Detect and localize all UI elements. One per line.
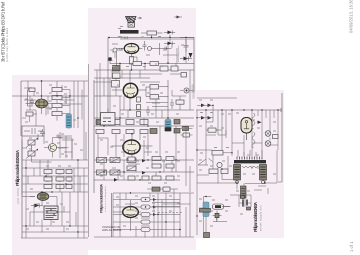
main HT wire lower pair xyxy=(120,38,194,40)
diode D6 xyxy=(142,171,146,174)
screen feed wire xyxy=(160,43,168,55)
cap C33 xyxy=(140,130,148,134)
component grid r4 xyxy=(44,177,52,181)
bus y172 xyxy=(94,171,194,173)
rectifier diode D12 xyxy=(208,104,212,108)
diode mark row2 xyxy=(153,206,156,209)
resistor R33 xyxy=(141,213,150,217)
small cap left of tube xyxy=(30,98,34,106)
loudspeaker LS1 xyxy=(126,17,137,28)
V5 pins xyxy=(113,200,141,231)
tiny value labels center bottom xyxy=(116,196,180,226)
bus y74 partial xyxy=(122,73,186,75)
resistor R20 xyxy=(166,176,174,180)
dark block C28d xyxy=(174,129,180,134)
junction dots right upper xyxy=(197,105,278,118)
bus y126 xyxy=(94,125,194,127)
mains connector component xyxy=(213,211,222,221)
anode load R14 xyxy=(137,97,141,102)
mains transformer T1 core xyxy=(234,160,266,163)
module contents xyxy=(46,209,57,218)
wires coil column xyxy=(57,81,70,121)
svg-text:schema voedingsdeel: schema voedingsdeel xyxy=(105,186,107,213)
dial lamp LP2 xyxy=(265,141,271,147)
aerial connector cluster xyxy=(108,57,113,64)
tiny diode top right xyxy=(177,16,181,19)
bus y104 partial xyxy=(60,103,82,105)
grid cluster box G2 xyxy=(163,187,170,191)
diode D4 outside frame xyxy=(184,57,189,61)
main HT wire xyxy=(108,37,194,39)
cap C22 xyxy=(165,47,172,51)
V2 pin wires xyxy=(112,70,146,110)
filter choke C42 xyxy=(260,165,267,181)
bus y176 xyxy=(22,175,88,177)
diode wire xyxy=(197,104,213,106)
scanned page strip left xyxy=(12,75,88,255)
bus y96 xyxy=(94,95,122,97)
tuning gang C1 xyxy=(26,138,38,148)
output transformer T2 black bar xyxy=(120,30,139,34)
resistor R21 xyxy=(147,31,157,35)
tuning gang C2 xyxy=(26,149,38,159)
wires tuning area xyxy=(22,138,69,197)
gang link dashed xyxy=(31,146,33,151)
filter internal bar xyxy=(200,209,211,213)
svg-text:power supply unit: power supply unit xyxy=(259,205,263,231)
trimmer cap symbol xyxy=(40,129,45,137)
tiny labels left upper xyxy=(25,85,76,122)
diode bar xyxy=(31,203,43,207)
resistor R16 xyxy=(137,112,141,117)
bus y232 left xyxy=(22,231,88,233)
resistor R12 xyxy=(133,62,142,66)
transistor TS1 xyxy=(49,144,57,152)
verticals right xyxy=(70,81,84,160)
right frame tick xyxy=(278,181,282,183)
wires right of V2 xyxy=(146,80,169,120)
small box x112 y80 xyxy=(112,81,120,88)
resistor R15 xyxy=(137,105,141,110)
diode below tube xyxy=(35,204,40,208)
wire riser R21 xyxy=(141,33,163,38)
right frame edge xyxy=(281,93,283,182)
wire mesh upper center xyxy=(112,43,177,78)
tiny labels right mid xyxy=(199,148,276,175)
box right mid B2 xyxy=(176,100,184,104)
osc coil box L3 xyxy=(52,104,62,108)
junction dots right bottom xyxy=(197,197,243,217)
grid cluster wires xyxy=(147,189,178,193)
speaker terminal arrow xyxy=(118,17,142,29)
bus y160 left xyxy=(22,159,88,161)
bottom verticals xyxy=(113,193,190,237)
component grid r1 xyxy=(44,170,52,174)
pot P3 xyxy=(110,158,120,163)
osc coil box L2 xyxy=(52,96,62,100)
box mid right strip xyxy=(208,128,216,132)
dark row box K4 xyxy=(140,120,148,125)
fuse inner band xyxy=(215,205,221,208)
dashed AVC line xyxy=(158,212,182,214)
tiny value labels center top xyxy=(98,37,184,129)
osc coil box L4 xyxy=(52,112,62,116)
wires bottom section xyxy=(113,193,194,230)
right strip verticals xyxy=(197,105,278,235)
wire mesh left upper xyxy=(24,81,82,126)
junction dots mid xyxy=(104,134,176,180)
junction risers xyxy=(100,39,186,70)
box row b1 xyxy=(209,169,218,174)
cap C34b slashed xyxy=(127,166,136,171)
S1 bands xyxy=(67,117,71,126)
bus y82 partial xyxy=(94,81,160,83)
small box above tube xyxy=(29,88,35,92)
S7 core bands xyxy=(166,122,170,127)
junction dots left upper xyxy=(42,81,79,118)
tiny labels left mid xyxy=(29,138,71,189)
page join edge line xyxy=(88,64,90,237)
wire mesh left mid xyxy=(22,134,80,192)
T1 feed stubs xyxy=(238,150,262,157)
dial lamp LP1 xyxy=(265,131,271,137)
capacitor symbol pair C26 xyxy=(146,106,150,116)
osc coil box L1 xyxy=(52,88,62,92)
IF transformer teal S1 xyxy=(66,114,72,128)
heater coil wavy xyxy=(252,113,255,148)
V1 pins xyxy=(26,81,52,114)
bus y226 left xyxy=(22,225,88,227)
T1 secondary bumps xyxy=(242,166,258,168)
output pentode V5 xyxy=(123,207,139,218)
wires lower right strip xyxy=(197,174,265,207)
small cap rows y129-134 xyxy=(96,130,104,134)
component grid r7 xyxy=(44,185,52,189)
component grid r5 xyxy=(56,177,64,181)
lamp circuit wires xyxy=(239,195,251,207)
pot circle xyxy=(217,162,222,167)
wire mesh left bottom xyxy=(22,197,76,233)
IF transformer teal S7 xyxy=(165,120,171,132)
bus y102 partial xyxy=(146,103,168,107)
inner frame stub xyxy=(28,90,34,106)
vertical x120 xyxy=(119,96,121,126)
end tick xyxy=(280,108,282,112)
svg-text:1B: 1B xyxy=(119,48,123,52)
coupling cap C21 xyxy=(143,41,147,51)
box C24 xyxy=(150,85,159,90)
svg-text:220V AC MAINS: 220V AC MAINS xyxy=(102,228,121,232)
svg-text:Philips models B3X63A: Philips models B3X63A xyxy=(99,184,103,213)
scanned page strip center xyxy=(88,8,196,250)
svg-text:B3X63A: B3X63A xyxy=(193,90,196,99)
cap stack C37 xyxy=(128,157,135,161)
grid circle left of V4 xyxy=(113,48,117,52)
electrolytic arrow xyxy=(189,53,193,58)
aerial sub box xyxy=(22,126,44,136)
wire mesh right upper xyxy=(197,98,278,145)
small box lower left of tube xyxy=(26,112,33,116)
dark row box K1 xyxy=(96,120,104,125)
svg-text:Philips models B3X63A: Philips models B3X63A xyxy=(253,202,258,232)
diode D3 xyxy=(114,178,118,182)
resistor R32 xyxy=(141,205,150,209)
junction dots left mid xyxy=(26,160,78,192)
left frame edge xyxy=(93,80,95,193)
long bus y96 xyxy=(12,95,88,97)
bottom frame xyxy=(94,236,194,238)
component grid r3 xyxy=(66,170,72,174)
dark row box K2 xyxy=(112,120,120,125)
bus y160 xyxy=(94,159,194,161)
choke terminal circle 2 xyxy=(262,181,265,184)
lower-left corner center strip xyxy=(111,193,113,237)
bottom component X1 xyxy=(204,233,210,238)
bus y78 xyxy=(94,77,150,79)
component grid r9 xyxy=(66,185,72,189)
stubs near V4 xyxy=(110,44,121,58)
smoothing cap C30 xyxy=(184,40,189,53)
box C25 xyxy=(150,95,159,100)
resistor R11b xyxy=(113,73,121,79)
cap C32 xyxy=(126,130,134,134)
bus y118 xyxy=(94,117,194,119)
surge resistor R41 xyxy=(212,151,223,156)
bus y192 xyxy=(22,191,88,193)
svg-text:04/09/2013, 16:36: 04/09/2013, 16:36 xyxy=(349,0,354,33)
output tube V4 EL41 xyxy=(124,44,138,54)
diode mark row3 xyxy=(153,213,156,216)
rectifier diode D11 xyxy=(201,104,205,108)
left strip verticals bottom xyxy=(26,160,84,238)
frame top xyxy=(21,80,88,82)
grid stopper circle xyxy=(148,47,152,51)
component grid r6 xyxy=(66,177,72,181)
frame left xyxy=(20,81,22,136)
wires around V4 xyxy=(116,49,159,71)
tiny labels right upper xyxy=(199,100,276,131)
vertical x110 xyxy=(109,78,111,126)
frame top right corner xyxy=(180,38,194,93)
V3 pins xyxy=(112,134,153,160)
bus wire y63 xyxy=(110,63,194,65)
bus y110 xyxy=(120,109,194,111)
pilot circle right edge xyxy=(180,88,193,93)
fuse lead xyxy=(224,206,231,208)
cap stack C39 xyxy=(166,164,174,168)
bus y180 xyxy=(94,179,180,181)
diode mark row1 xyxy=(153,198,156,201)
S7 dark base xyxy=(165,128,172,132)
wire mesh bottom center xyxy=(120,193,190,238)
plug stem xyxy=(199,208,206,232)
junction dots right mid xyxy=(197,150,265,183)
bandfilter box BF1 xyxy=(101,109,116,126)
band switch box S2a xyxy=(160,66,168,71)
component grid r2 xyxy=(56,170,64,174)
cap stack C38 xyxy=(166,157,174,161)
wire mesh right bottom xyxy=(204,195,240,232)
svg-text:Philips models B3X63A: Philips models B3X63A xyxy=(15,149,20,186)
resistor R19 xyxy=(152,176,161,180)
cap C35 xyxy=(128,176,135,180)
resistor R13 xyxy=(150,62,159,66)
volume pot P1 xyxy=(97,158,107,163)
box near right edge B1 xyxy=(181,73,187,78)
block C28c xyxy=(183,133,190,137)
resistor R11 xyxy=(113,66,121,72)
tiny diode lead xyxy=(174,16,182,18)
lamp terminal blocks xyxy=(241,196,245,199)
junction dots bottom xyxy=(131,193,181,230)
scanned page strip right xyxy=(196,90,284,238)
rectifier diode D14 xyxy=(208,116,212,120)
svg-text:1 of 1: 1 of 1 xyxy=(349,241,354,252)
bus wire y70 xyxy=(94,69,194,71)
cap C31 xyxy=(112,130,120,134)
mains switch S10 xyxy=(198,159,213,166)
cathode resistor R22 xyxy=(130,57,134,65)
capacitor symbol pair C27 xyxy=(170,99,174,109)
wire below xyxy=(107,38,109,113)
cap row dark box xyxy=(150,129,157,134)
lamp bars xyxy=(243,200,247,206)
cap row C34 xyxy=(127,158,136,163)
stubs lower left xyxy=(22,114,37,122)
fuse box F1 xyxy=(213,204,224,209)
tone pot P2 xyxy=(97,170,107,175)
leads C28b xyxy=(180,129,193,136)
wires out right y202-207 xyxy=(152,203,180,207)
vertical x100 xyxy=(99,70,101,126)
wire mesh right mid xyxy=(197,150,277,186)
grid cluster box G1 xyxy=(152,187,160,191)
mid clutter ticks xyxy=(61,134,83,154)
dark block C28b xyxy=(183,127,189,131)
aerial box parts xyxy=(24,128,42,134)
bus y110 partial xyxy=(26,109,36,111)
tiny value labels center mid xyxy=(100,137,180,183)
cap C36 xyxy=(142,176,149,180)
junction dots top xyxy=(104,38,186,127)
resistor column R31 xyxy=(141,198,150,202)
small box right column xyxy=(273,135,279,139)
component grid r8 xyxy=(56,185,64,189)
svg-text:(LA03 ma) Refs a bled: (LA03 ma) Refs a bled xyxy=(5,28,9,62)
module inner dots xyxy=(47,210,54,214)
pot P4 xyxy=(110,170,120,175)
mains top wire xyxy=(196,109,281,111)
diode D5 xyxy=(142,159,146,162)
IF tube V2 xyxy=(123,83,137,97)
resistor R34 xyxy=(141,220,150,224)
rectifier diode D13 xyxy=(201,116,205,120)
mixer tube V1 xyxy=(36,99,48,108)
svg-text:(AM 1953): (AM 1953) xyxy=(16,188,20,204)
dark block C28 xyxy=(174,120,180,125)
triode V3 xyxy=(123,140,140,154)
heater diode xyxy=(258,121,262,124)
tiny labels right bottom xyxy=(199,191,250,226)
lamp terminal block 2 xyxy=(247,207,251,210)
stub wires mid right strip xyxy=(206,130,268,194)
bus y168 left xyxy=(22,167,88,169)
band switch box S2b xyxy=(171,66,178,71)
box row b2 xyxy=(221,169,228,174)
bus y184 xyxy=(22,183,88,185)
filter choke C41 xyxy=(234,165,241,181)
resistor R35 xyxy=(141,228,150,232)
dark row box K3 xyxy=(126,120,134,125)
teal mains filter S11 xyxy=(203,202,209,217)
wire mesh mid center xyxy=(97,70,190,126)
choke terminal circle xyxy=(236,181,239,184)
resistor R17 xyxy=(152,157,161,161)
mains transformer T1 comb ticks xyxy=(237,157,262,160)
frame bottom left strip xyxy=(21,237,88,239)
bus y100 partial xyxy=(24,99,74,101)
diode wire 2 xyxy=(197,117,213,119)
wires module xyxy=(30,197,70,226)
rectifier tube V6 xyxy=(241,118,252,141)
diode D1 xyxy=(164,30,175,37)
tiny labels left bottom xyxy=(26,203,69,229)
module box M1 xyxy=(44,206,58,220)
diode D4 wire xyxy=(180,56,192,60)
riser verticals mid xyxy=(104,126,186,186)
converter tube V1b xyxy=(37,193,49,201)
diode D2 xyxy=(164,39,175,45)
resistor R18 xyxy=(152,164,161,168)
wire mesh lower center xyxy=(98,134,190,192)
dropper resistor R42 xyxy=(241,186,247,198)
left frame lower edge xyxy=(21,136,23,238)
mid clutter wires xyxy=(56,132,86,160)
junction dots left bottom xyxy=(26,192,78,232)
